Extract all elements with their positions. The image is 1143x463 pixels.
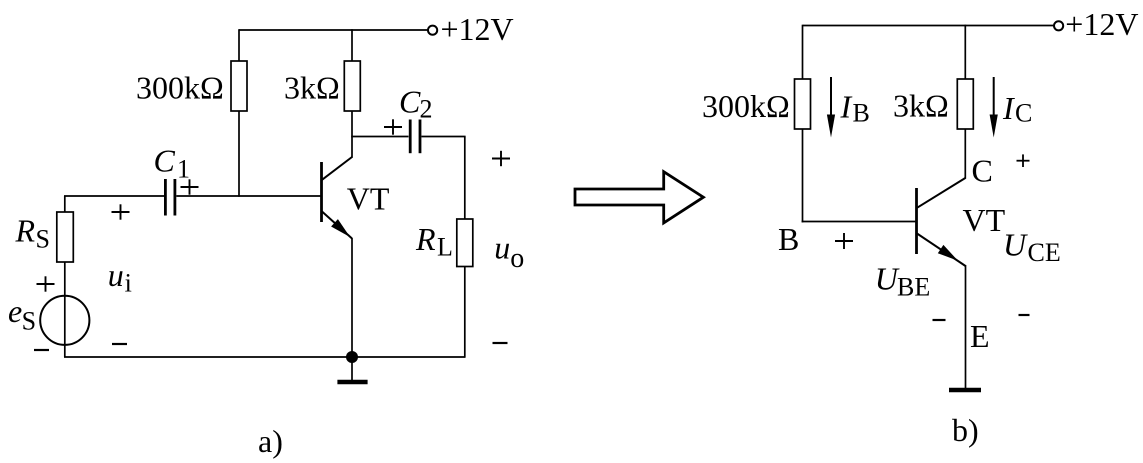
wire bottom rail a <box>64 356 465 358</box>
wire 3k bottom b <box>964 129 966 179</box>
transistor VT a : base bar <box>320 162 323 222</box>
wire C2 to output corner <box>422 136 466 138</box>
svg-text:u: u <box>494 229 510 265</box>
plus of UCE top <box>1017 154 1030 167</box>
IB current arrow <box>830 77 832 120</box>
emitter arrowhead b <box>938 245 958 261</box>
wire base left segment <box>64 195 164 197</box>
svg-text:I: I <box>1002 90 1015 126</box>
resistor 300kΩ b <box>795 79 811 129</box>
ground <box>351 357 353 380</box>
resistor RL <box>457 219 473 267</box>
svg-text:2: 2 <box>420 95 433 124</box>
svg-text:L: L <box>437 233 453 262</box>
resistor 300kΩ <box>231 61 247 111</box>
resistor 3kΩ b <box>957 79 973 129</box>
emitter arrowhead a <box>331 219 350 237</box>
svg-text:B: B <box>778 221 799 257</box>
svg-text:C: C <box>1015 99 1032 128</box>
emitter diagonal a <box>322 212 352 239</box>
wire 3k top b <box>964 25 966 79</box>
wire collector to C2 <box>351 136 408 138</box>
wire base right segment <box>176 195 321 197</box>
wire 300k top <box>238 29 240 61</box>
junction dot emitter/ground <box>346 351 358 363</box>
svg-text:e: e <box>8 293 22 329</box>
svg-text:CE: CE <box>1028 238 1061 267</box>
svg-text:E: E <box>970 318 990 354</box>
wire top rail a <box>239 29 428 31</box>
wire RL bottom <box>464 267 466 358</box>
svg-text:S: S <box>36 225 50 254</box>
+12V terminal circle b <box>1054 21 1063 30</box>
plus at C2 <box>384 119 402 134</box>
svg-text:U: U <box>1003 227 1028 263</box>
capacitor C1 <box>164 179 167 216</box>
wire emitter down b <box>965 265 967 389</box>
svg-text:C: C <box>154 143 176 179</box>
wire 300k top b <box>802 25 804 79</box>
svg-text:BE: BE <box>897 272 930 301</box>
svg-text:R: R <box>15 213 36 249</box>
minus of ui <box>112 343 127 345</box>
svg-text:C: C <box>399 84 421 120</box>
resistor RS <box>57 212 74 262</box>
minus of UCE <box>1019 314 1030 316</box>
resistor 3kΩ <box>344 61 360 111</box>
svg-text:1: 1 <box>177 155 190 184</box>
svg-text:VT: VT <box>347 181 390 217</box>
wire source top <box>64 196 66 212</box>
svg-text:300kΩ: 300kΩ <box>136 70 224 106</box>
emitter diagonal b <box>917 234 966 267</box>
svg-text:a): a) <box>258 423 283 459</box>
collector diagonal a <box>322 157 352 180</box>
svg-text:b): b) <box>952 412 979 448</box>
minus of UBE <box>933 319 946 321</box>
svg-text:3kΩ: 3kΩ <box>893 88 949 124</box>
+12V terminal circle a <box>428 26 437 35</box>
wire base b <box>802 221 917 223</box>
block arrow <box>575 172 703 223</box>
wire 300k bottom to base node <box>238 111 240 197</box>
wire down to RL <box>464 137 466 220</box>
capacitor C2 <box>409 120 412 154</box>
IC current arrow <box>993 77 995 120</box>
svg-text:R: R <box>415 221 436 257</box>
transistor VT b : base bar <box>915 188 918 254</box>
plus of uo <box>492 151 510 166</box>
collector diagonal b <box>917 178 965 208</box>
minus of uo <box>493 342 508 344</box>
plus of eS <box>37 276 55 291</box>
svg-text:C: C <box>972 152 993 188</box>
source eS circle <box>40 296 89 345</box>
wire emitter down a <box>351 238 353 357</box>
svg-text:3kΩ: 3kΩ <box>284 70 340 106</box>
wire 3k top <box>351 29 353 61</box>
svg-text:o: o <box>510 243 524 274</box>
ground b <box>949 388 981 393</box>
plus at C1 <box>181 179 199 194</box>
plus of ui <box>112 204 130 219</box>
svg-text:300kΩ: 300kΩ <box>702 88 790 124</box>
svg-text:+12V: +12V <box>441 11 514 47</box>
svg-text:u: u <box>108 257 124 293</box>
svg-text:B: B <box>853 98 870 127</box>
svg-text:VT: VT <box>963 202 1006 238</box>
plus of UBE <box>835 233 853 249</box>
svg-text:+12V: +12V <box>1065 6 1138 42</box>
wire top rail b <box>803 25 1054 27</box>
wire 3k bottom / collector vertical <box>351 111 353 158</box>
svg-text:I: I <box>840 89 853 125</box>
svg-text:i: i <box>125 269 132 298</box>
minus of eS <box>34 349 49 351</box>
wire 300k bottom b <box>802 129 804 222</box>
wire through source <box>64 262 66 357</box>
svg-text:S: S <box>22 307 36 336</box>
